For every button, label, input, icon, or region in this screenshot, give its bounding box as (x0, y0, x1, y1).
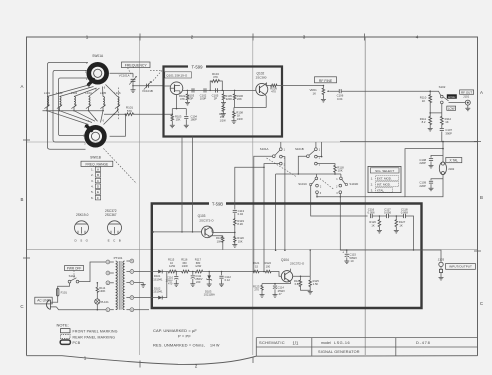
svg-text:B: B (97, 173, 99, 177)
ground (308, 291, 313, 294)
capacitor C110 25WV 470 (166, 272, 179, 286)
resistor R115 10 1/2W (167, 258, 176, 273)
resistor R118 10K (317, 164, 344, 174)
svg-text:2: 2 (195, 363, 198, 368)
svg-text:F101: F101 (61, 291, 68, 295)
wire SW01A to inductor top (74, 88, 97, 97)
svg-text:23P: 23P (188, 97, 193, 101)
ground (428, 128, 433, 131)
svg-text:E: E (108, 239, 110, 243)
junction (152, 231, 154, 233)
svg-text:P = PF: P = PF (178, 334, 191, 339)
ground (221, 103, 226, 106)
wire SW01A to inductor top (102, 87, 105, 97)
junction (88, 110, 89, 111)
svg-text:S101B: S101B (295, 147, 304, 151)
svg-text:10K: 10K (338, 169, 343, 173)
svg-text:1: 1 (86, 35, 89, 40)
freq range item 4 D (91, 184, 101, 189)
svg-text:8.2K: 8.2K (237, 222, 243, 226)
svg-text:RES. UNMARKED = Ohms,: RES. UNMARKED = Ohms, (153, 342, 205, 347)
svg-text:L101: L101 (44, 91, 51, 95)
wire Q101 source (172, 95, 186, 115)
wire SW01A to inductor top (47, 85, 91, 97)
ground (221, 114, 226, 117)
junction (316, 196, 318, 198)
ground (429, 165, 434, 168)
junction (192, 271, 194, 273)
svg-text:220K: 220K (226, 97, 232, 101)
capacitor C113 0.02 (233, 167, 264, 218)
svg-text:180P: 180P (191, 118, 197, 122)
ground (231, 121, 236, 124)
ground (185, 102, 190, 105)
ground (439, 277, 444, 280)
AC plug (46, 300, 56, 310)
svg-text:270: 270 (254, 288, 259, 292)
junction (309, 249, 311, 251)
svg-text:100P: 100P (200, 97, 207, 101)
junction (221, 271, 223, 273)
svg-text:3.: 3. (91, 179, 94, 183)
junction (323, 85, 325, 87)
svg-text:SIG. SELECT: SIG. SELECT (375, 169, 394, 173)
unmarked values note (153, 328, 220, 348)
resistor R102 47K (179, 90, 189, 102)
resistor R110 1K (420, 91, 432, 113)
svg-text:3: 3 (303, 35, 306, 40)
wire SW01A to inductor top (60, 87, 94, 97)
mech link dash SW01A to SW01B (118, 88, 120, 121)
svg-text:B: B (119, 239, 121, 243)
junction (59, 110, 60, 111)
inductor L101 (44, 91, 51, 111)
switch S101C (298, 177, 322, 195)
wire Q104 collector out (289, 269, 292, 272)
wire S101D c3 down to PCB (340, 194, 347, 251)
svg-text:47K: 47K (180, 97, 185, 101)
junction (275, 250, 277, 252)
wire plug neutral to primary bottom (56, 307, 106, 310)
svg-text:1: 1 (84, 356, 87, 361)
svg-text:+: + (342, 250, 344, 254)
wire SW01A to inductor top (106, 85, 118, 97)
svg-text:2SC372-O: 2SC372-O (290, 262, 305, 266)
svg-text:1/2W: 1/2W (195, 264, 202, 268)
svg-text:REAR PANEL MARKING: REAR PANEL MARKING (73, 335, 116, 339)
svg-text:SCHEMATIC: SCHEMATIC (259, 340, 285, 345)
freq range item 6 F (91, 195, 101, 200)
svg-text:T-599: T-599 (192, 64, 204, 69)
diode D101 1S1941 (153, 270, 163, 282)
transistor Q101 2SK19-G (165, 72, 192, 95)
wire inductor bottom to SW01B (104, 111, 118, 125)
svg-text:B: B (21, 197, 24, 202)
switch S102 (430, 85, 448, 104)
svg-text:XTAL: XTAL (377, 189, 385, 193)
junction (346, 249, 348, 251)
wire S101C c3 down (316, 194, 318, 197)
svg-text:2P: 2P (214, 97, 218, 101)
junction (429, 112, 431, 114)
wire emitter bus (234, 107, 266, 109)
junction (73, 110, 74, 111)
wire rectifier cathodes join (162, 272, 167, 298)
resistor R108 1K 1/2W (233, 108, 244, 121)
PCB outline T-59B (152, 202, 422, 309)
svg-text:1K: 1K (313, 91, 317, 95)
HIGH panel label (447, 94, 457, 99)
FREQ RANGE panel label (81, 161, 113, 166)
svg-text:4: 4 (416, 35, 419, 40)
RF OUT panel label (460, 90, 474, 95)
svg-text:J101: J101 (463, 95, 470, 99)
svg-text:0.04: 0.04 (337, 97, 343, 101)
svg-text:10: 10 (350, 259, 354, 263)
wire inductor bottom to SW01B (47, 111, 89, 125)
transformer PT101 (114, 256, 125, 310)
svg-text:10: 10 (170, 261, 173, 265)
svg-text:SIGNAL GENERATOR: SIGNAL GENERATOR (318, 350, 360, 354)
svg-text:4.: 4. (91, 185, 94, 189)
svg-text:390P: 390P (445, 131, 452, 135)
svg-text:INT. MOD.: INT. MOD. (377, 183, 391, 187)
terminal 7 (126, 281, 133, 285)
junction (176, 271, 178, 273)
wire T-599 to PCB feed 2 (192, 137, 194, 232)
svg-text:VC101A: VC101A (119, 74, 130, 78)
svg-text:15K: 15K (176, 118, 181, 122)
svg-text:0.056: 0.056 (368, 211, 375, 215)
svg-text:130K: 130K (99, 289, 105, 293)
junction (187, 90, 189, 92)
wire inductor bottom to SW01B (101, 111, 104, 123)
junction (113, 113, 115, 115)
pinout label 2SC372 2SC367 (105, 209, 117, 217)
wire SW01A wiper to varactors (110, 73, 133, 77)
svg-text:1/1: 1/1 (293, 340, 299, 345)
capacitor C102 100P (200, 88, 207, 100)
junction (340, 196, 342, 198)
wire VC101A node (132, 86, 134, 90)
rotary switch SW01B (83, 117, 105, 160)
svg-text:1S211BA: 1S211BA (204, 293, 215, 297)
capacitor C114 25WV 47 (273, 286, 285, 296)
wire S101A c3 to mod bus (264, 164, 280, 272)
resistor R117 680 1/2W (190, 258, 253, 273)
svg-text:A: A (21, 84, 24, 89)
pinout package D S G (75, 221, 89, 243)
svg-text:S101D: S101D (349, 182, 358, 186)
capacitor C109 220P (419, 179, 443, 188)
fuse F101 (57, 288, 68, 296)
capacitor C104 180P (184, 109, 197, 126)
svg-text:2SC380: 2SC380 (256, 75, 267, 79)
ground (429, 188, 434, 191)
resistor R119 8.2K (234, 218, 245, 232)
svg-text:F: F (97, 196, 99, 200)
wire plug hot to fuse (56, 296, 57, 302)
note legend (57, 323, 118, 346)
inductor common bus wire (43, 110, 105, 112)
svg-text:J103: J103 (438, 257, 445, 261)
svg-text:22K: 22K (237, 97, 242, 101)
svg-text:15K: 15K (238, 239, 243, 243)
wire inductor bottom to SW01B (60, 111, 93, 123)
wire S104 to fuse (58, 283, 70, 288)
capacitor C115 50WV 10 (340, 250, 357, 263)
svg-text:5.: 5. (91, 190, 94, 194)
variable capacitor VC101B (142, 81, 153, 93)
svg-text:10K: 10K (217, 239, 222, 243)
svg-text:15: 15 (255, 264, 258, 268)
svg-text:1/2W: 1/2W (182, 264, 189, 268)
wire Q104 emitter (262, 281, 290, 285)
mech link dash FREQUENCY to VC101B (150, 70, 162, 83)
svg-text:0.068: 0.068 (401, 211, 408, 215)
junction (102, 110, 103, 111)
junction (298, 173, 300, 175)
svg-text:SW01B: SW01B (90, 155, 101, 159)
wire Q103 base (152, 231, 202, 233)
svg-text:2.: 2. (371, 183, 374, 187)
capacitor C112 0.12 (219, 272, 231, 285)
ground (219, 284, 224, 287)
svg-text:L102: L102 (56, 91, 63, 95)
terminal 3 (106, 271, 114, 275)
transistor Q102 2SC380 (256, 72, 268, 96)
switch S101D (336, 177, 358, 195)
FREQUENCY panel label (122, 62, 151, 68)
wire xtal line (317, 196, 405, 198)
junction (442, 148, 444, 150)
rotary switch SW01A (85, 54, 107, 91)
svg-text:3.: 3. (371, 189, 374, 193)
wire S101A c2 down to mod line (282, 157, 285, 251)
svg-text:INPUT/OUTPUT: INPUT/OUTPUT (449, 265, 472, 269)
svg-text:220P: 220P (419, 161, 426, 165)
wire secondary 6 to D101 (134, 271, 155, 273)
wire secondary 9 stub (134, 309, 149, 311)
svg-text:1.5K: 1.5K (313, 282, 319, 286)
svg-text:L103: L103 (71, 91, 78, 95)
PCB outline T-599 (164, 64, 283, 136)
mech link dash PWR OFF to S104 (73, 271, 75, 278)
svg-text:8.2: 8.2 (422, 120, 426, 124)
svg-text:1/2W: 1/2W (237, 117, 244, 121)
junction (117, 110, 118, 111)
svg-text:VC101B: VC101B (142, 89, 153, 93)
svg-text:NOTE:: NOTE: (57, 323, 69, 328)
junction (209, 90, 211, 92)
svg-text:SW01A: SW01A (92, 54, 104, 58)
junction (263, 271, 265, 273)
ground (377, 230, 382, 233)
terminal 8 (126, 296, 133, 300)
svg-text:HIGH: HIGH (448, 95, 455, 99)
svg-text:1K: 1K (399, 223, 402, 227)
wire loop SW01A-3 to SW01B-3 (58, 78, 87, 136)
svg-text:1S1941: 1S1941 (153, 290, 163, 294)
jack J101 (449, 95, 471, 109)
svg-text:FREQUENCY: FREQUENCY (125, 64, 148, 68)
pilot lamp PL101 (95, 299, 109, 310)
junction (192, 231, 194, 233)
resistor R116 10K (216, 236, 224, 250)
resistor R109 470 (270, 84, 278, 93)
svg-text:150: 150 (182, 261, 187, 265)
resistor R101 57K (125, 106, 135, 116)
resistor R123 270 (253, 284, 263, 295)
freq range item 5 E (91, 190, 101, 195)
svg-text:S101C: S101C (298, 182, 307, 186)
freq range item 3 C (91, 178, 101, 183)
wire Q103 collector (210, 228, 235, 233)
svg-text:1.: 1. (91, 167, 94, 171)
junction (222, 90, 224, 92)
zener diode D103 1S211BA (204, 272, 215, 297)
svg-text:S102: S102 (439, 85, 446, 89)
resistor R104 47K bypass (210, 72, 222, 90)
switch S104 (68, 274, 79, 283)
junction (396, 215, 398, 217)
resistor R125 1.5K (309, 276, 319, 291)
pinout label 2SK19-G (76, 213, 89, 217)
wire secondary 8 to D102 (134, 297, 155, 299)
LOW panel label (447, 106, 456, 110)
wire gate line to T-599 (133, 85, 164, 87)
svg-text:Q104: Q104 (281, 258, 289, 262)
wire SW01B wiper up to gate line (110, 114, 126, 136)
wire S101B wiper left down right (298, 156, 341, 174)
ground (273, 295, 278, 298)
svg-text:1/4 W: 1/4 W (210, 343, 220, 347)
svg-text:470: 470 (271, 89, 276, 93)
PWR OFF panel label (65, 266, 84, 271)
wire Q102 collector to R109 (264, 83, 269, 86)
transistor Q104 2SC372-O (281, 258, 305, 282)
wire S104 to primary top (79, 262, 106, 282)
capacitor C106 0.04 (330, 89, 430, 101)
mech link dash FREQUENCY to VC101A (128, 68, 132, 76)
junction (234, 90, 236, 92)
junction (379, 215, 381, 217)
junction (263, 167, 265, 169)
diode D102 1S1941 (153, 286, 163, 299)
wire Q102 emitter (264, 94, 266, 108)
svg-text:PT101: PT101 (114, 256, 123, 260)
svg-text:C: C (480, 301, 483, 306)
junction (234, 232, 236, 234)
wire Q101 drain row (183, 89, 256, 91)
svg-text:0.056: 0.056 (384, 211, 391, 215)
switch S101A (260, 147, 286, 167)
inductor L106 (114, 91, 121, 111)
transistor Q103 2SC372-O (198, 214, 215, 238)
svg-text:E: E (97, 190, 99, 194)
svg-text:2SC372-O: 2SC372-O (199, 218, 214, 222)
terminal 4 (106, 260, 114, 264)
resistor R116 150 1/2W (177, 258, 190, 273)
resistor R107 150 1/2W (219, 103, 226, 122)
svg-text:1K: 1K (422, 99, 426, 103)
wire S101B c2 node (317, 142, 321, 157)
junction (300, 276, 302, 278)
terminal 2 (106, 281, 114, 285)
ground (184, 125, 189, 128)
svg-text:2.: 2. (91, 173, 94, 177)
ground (174, 284, 179, 287)
junction (208, 271, 210, 273)
junction (172, 113, 174, 115)
svg-text:0.02: 0.02 (238, 212, 244, 216)
freq range item 1 A (91, 167, 101, 172)
svg-text:2SC367: 2SC367 (105, 213, 117, 217)
ground below VC101A (131, 90, 136, 93)
wire inductor bottom to SW01B (89, 111, 98, 122)
wire T-599 to PCB feed 1 (181, 137, 183, 232)
svg-text:2SK19-0: 2SK19-0 (76, 213, 89, 217)
svg-text:model: model (321, 341, 331, 345)
junction (429, 90, 431, 92)
ground (232, 245, 237, 248)
terminal 5 (126, 259, 133, 263)
mech link dash S101C-S101D (323, 181, 335, 190)
resistor R111 8.2 (420, 113, 432, 128)
svg-text:C: C (20, 304, 23, 309)
SIG SELECT panel label (368, 166, 401, 192)
junction (97, 309, 99, 311)
svg-text:CAP. UNMARKED = µF: CAP. UNMARKED = µF (153, 328, 197, 333)
junction (181, 231, 183, 233)
terminal 9 (126, 308, 133, 312)
switch S101B (295, 147, 321, 167)
mech link dash S101A-S101C (267, 158, 297, 177)
svg-text:PWR OFF: PWR OFF (67, 267, 82, 271)
ground (141, 285, 146, 288)
resistor R127 1K (395, 216, 406, 230)
wire supply rail right (340, 141, 477, 143)
jack J103 (438, 257, 445, 277)
junction (274, 283, 276, 285)
svg-text:2: 2 (191, 35, 194, 40)
capacitor C108 220P (419, 155, 443, 165)
capacitor C116 0.056 (368, 208, 375, 219)
wire divider node (430, 104, 442, 116)
junction (321, 156, 323, 158)
resistor R124 6.8K (294, 276, 310, 290)
wire loop SW01A-1 to SW01B-1 (47, 62, 88, 149)
svg-text:S104: S104 (69, 274, 76, 278)
wire S101B pole up (315, 142, 317, 148)
freq range item 2 B (91, 173, 101, 178)
svg-text:PL101: PL101 (101, 300, 110, 304)
resistor R126 1K (369, 216, 380, 230)
wire crystal loop (405, 142, 443, 197)
svg-text:J102: J102 (448, 167, 455, 171)
svg-text:S101A: S101A (260, 147, 269, 151)
wire gate entry (164, 85, 171, 87)
svg-text:RF FINE: RF FINE (319, 79, 333, 83)
svg-text:D-478: D-478 (416, 340, 431, 345)
capacitor C103 23P (187, 88, 194, 100)
capacitor C107 390P (440, 128, 453, 141)
svg-text:47K: 47K (213, 75, 218, 79)
inductor L104 (85, 91, 92, 111)
junction (125, 113, 127, 115)
ground (190, 284, 195, 287)
svg-text:B: B (480, 195, 483, 200)
